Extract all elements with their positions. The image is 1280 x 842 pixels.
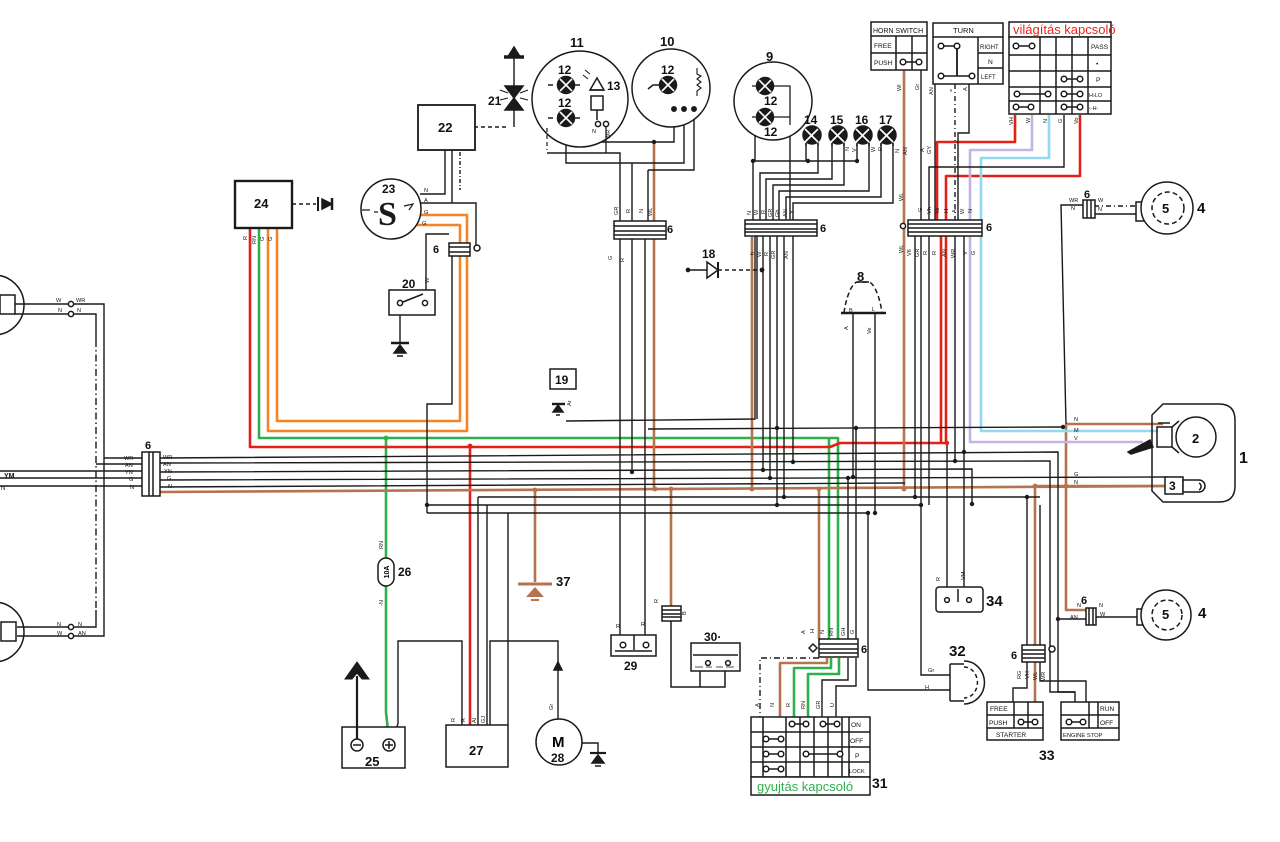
- wire box 34 VM feed: [963, 452, 965, 588]
- svg-text:5: 5: [1162, 201, 1169, 216]
- wire connector a to box 29 left: [619, 239, 621, 635]
- svg-text:18: 18: [702, 247, 716, 261]
- svg-text:WL: WL: [899, 193, 905, 201]
- svg-text:N: N: [130, 485, 134, 491]
- wire connector b down b6: [792, 236, 794, 462]
- wire green ignition feed R: [794, 658, 831, 718]
- svg-text:6: 6: [1011, 650, 1017, 662]
- svg-text:R: R: [923, 251, 929, 255]
- wire motor to ground: [581, 743, 598, 753]
- connector 6 speedometer (a): [614, 221, 666, 239]
- svg-text:PUSH: PUSH: [874, 60, 893, 67]
- connector 6 top right (h): [1083, 200, 1095, 218]
- wire brown tail lamp feed: [1066, 424, 1163, 610]
- connector 6 right cluster (c): [900, 220, 982, 236]
- wire bulb 15 W: [766, 143, 832, 220]
- battery 25: [342, 727, 405, 768]
- wire brown bus junction down to connector 29-30: [670, 490, 673, 606]
- connector 6 ignition (f): [819, 639, 858, 657]
- svg-text:6: 6: [1081, 595, 1087, 607]
- svg-text:11: 11: [570, 35, 584, 50]
- wire lighting switch W: [929, 115, 1064, 222]
- svg-text:12: 12: [558, 63, 572, 77]
- svg-text:32: 32: [949, 643, 966, 660]
- svg-text:R: R: [936, 577, 942, 581]
- svg-text:N: N: [1077, 603, 1081, 609]
- svg-text:RN: RN: [801, 701, 807, 709]
- motor ground: [590, 753, 606, 766]
- svg-text:G: G: [1058, 119, 1064, 123]
- wire connector b down b2: [762, 236, 764, 470]
- svg-text:R: R: [641, 622, 645, 628]
- svg-text:V6: V6: [907, 249, 913, 256]
- svg-text:19: 19: [555, 373, 569, 387]
- svg-text:Vh: Vh: [927, 207, 933, 214]
- svg-text:R: R: [761, 210, 767, 214]
- wire turn signal 5 bottom leads: [1096, 616, 1137, 618]
- svg-text:30·: 30·: [704, 630, 721, 644]
- box 29-30 lower wiring: [671, 621, 725, 687]
- alternator circle 23: [361, 179, 421, 239]
- svg-text:17: 17: [879, 113, 893, 127]
- svg-text:8: 8: [857, 269, 864, 284]
- wire brown speedometer WL down to bus: [653, 143, 656, 488]
- small wire labels: [1, 84, 1106, 723]
- motor 28: [536, 719, 582, 765]
- svg-text:AN: AN: [1070, 615, 1078, 621]
- svg-text:W: W: [871, 146, 877, 152]
- connector 29-30 brown hatched: [662, 606, 681, 621]
- diode 21 symbol: [500, 47, 528, 110]
- svg-text:H›LO: H›LO: [1089, 93, 1103, 99]
- wire brown below connector b to bus: [751, 237, 754, 489]
- svg-text:A: A: [801, 630, 807, 634]
- svg-text:22: 22: [438, 120, 452, 135]
- svg-text:R: R: [620, 258, 626, 262]
- svg-text:R: R: [932, 251, 938, 255]
- svg-text:VH: VH: [1025, 671, 1031, 679]
- wire red below connector to bus: [937, 230, 941, 443]
- tachometer gauge 10: [632, 49, 710, 127]
- svg-text:A: A: [755, 703, 761, 707]
- horn switch box: [871, 22, 927, 70]
- wire turn signal 5 top lead solid: [1094, 213, 1136, 215]
- svg-text:21: 21: [488, 94, 502, 108]
- wire diode 18 anode lead: [688, 269, 707, 271]
- wire brown main bus: [160, 486, 1168, 492]
- svg-text:G: G: [129, 477, 133, 483]
- svg-text:VM: VM: [961, 571, 967, 580]
- wire red bus to CDI box 27: [469, 447, 472, 725]
- LED 13: [583, 70, 604, 120]
- svg-text:29: 29: [624, 659, 638, 673]
- svg-text:13: 13: [607, 79, 621, 93]
- wire horn 32 H feed: [868, 513, 950, 690]
- svg-text:23: 23: [382, 182, 396, 196]
- wire orange outer (regulator 24 to alternator connector): [277, 225, 460, 421]
- svg-text:2: 2: [1192, 431, 1199, 446]
- svg-text:N: N: [1074, 417, 1078, 423]
- wire turn switch A: [958, 84, 969, 222]
- connector W lower circle: [68, 633, 73, 638]
- wire connector a down to YN bus: [631, 239, 633, 472]
- svg-text:G: G: [1074, 472, 1078, 478]
- svg-text:N: N: [895, 149, 901, 153]
- svg-text:G: G: [167, 476, 171, 482]
- wire front turn signal N dash-dot section: [95, 340, 97, 610]
- box 19: [550, 369, 576, 389]
- svg-text:N: N: [424, 188, 428, 194]
- wire bulb 14 V: [760, 143, 818, 220]
- svg-text:W: W: [960, 208, 966, 214]
- wire speedometer harness a5: [631, 163, 633, 222]
- svg-text:PASS: PASS: [1091, 44, 1109, 51]
- svg-text:N: N: [592, 129, 596, 135]
- wire ignition connector GH feed: [847, 478, 849, 639]
- svg-text:YM: YM: [4, 473, 15, 480]
- svg-text:YN: YN: [125, 470, 133, 476]
- wire connector b down b1: [756, 236, 758, 419]
- svg-text:R: R: [616, 624, 620, 630]
- wire tachometer bulb collector: [753, 90, 857, 220]
- svg-text:WR: WR: [76, 298, 85, 304]
- svg-text:N: N: [1099, 603, 1103, 609]
- svg-text:G: G: [424, 210, 428, 216]
- rectifier box 29: [611, 635, 656, 656]
- svg-text:N: N: [58, 308, 62, 314]
- wire bulb 17 GY: [793, 143, 893, 220]
- wire bulb 17 A: [786, 143, 881, 220]
- svg-text:G: G: [850, 630, 856, 634]
- wire box 34 R feed: [946, 444, 948, 588]
- wire brown bus to tail bulb 3: [1035, 485, 1168, 488]
- svg-text:N: N: [1043, 119, 1049, 123]
- svg-text:A: A: [920, 148, 926, 152]
- svg-text:5: 5: [1162, 607, 1169, 622]
- svg-text:14: 14: [804, 113, 818, 127]
- fuse 26: [378, 558, 394, 586]
- wire ignition A dash-dot: [760, 658, 819, 718]
- bulb 15: [829, 126, 847, 146]
- svg-text:A: A: [963, 87, 969, 91]
- svg-text:28: 28: [551, 751, 565, 765]
- svg-text:WR: WR: [1041, 672, 1047, 681]
- svg-text:Gr: Gr: [928, 668, 934, 674]
- connector g pin circle: [1049, 646, 1055, 652]
- svg-text:PUSH: PUSH: [989, 720, 1008, 727]
- wire ignition U lead: [836, 658, 856, 718]
- bulb 12 gauge9 lower: [752, 109, 790, 126]
- tail bulb 3: [1165, 477, 1205, 494]
- svg-text:R: R: [461, 718, 467, 722]
- svg-text:világítás kapcsoló: világítás kapcsoló: [1013, 22, 1116, 37]
- svg-text:W: W: [757, 251, 763, 257]
- svg-text:37: 37: [556, 574, 570, 589]
- wire red main bus (regulator 24 across): [250, 115, 1080, 447]
- component number labels: [145, 34, 1248, 791]
- CDI box 27: [446, 725, 508, 767]
- svg-text:AN: AN: [784, 251, 790, 259]
- wire front turn signal W upper: [14, 304, 104, 636]
- wire turn switch center dashed: [954, 84, 956, 222]
- svg-text:H: H: [810, 629, 816, 633]
- wire red lighting switch RH to connector: [937, 115, 1015, 222]
- wire box 22 N to alternator: [420, 150, 445, 194]
- svg-text:ENGINE STOP: ENGINE STOP: [1063, 733, 1103, 739]
- svg-text:R: R: [654, 599, 660, 603]
- svg-text:RN: RN: [379, 541, 385, 549]
- front turn signal left bottom: [0, 602, 24, 662]
- connector N upper circle: [68, 311, 73, 316]
- svg-text:Wl: Wl: [897, 84, 903, 91]
- svg-text:25: 25: [365, 754, 379, 769]
- wire brown ignition connector to switch N: [780, 658, 827, 718]
- wire speedometer harness a3: [566, 110, 684, 163]
- svg-text:LEFT: LEFT: [981, 75, 996, 81]
- lighting switch box: [1009, 22, 1111, 114]
- wire CDI fourth feed: [507, 513, 509, 725]
- wire turn switch AN: [934, 84, 936, 222]
- wire green fuse 26 to battery plus: [386, 585, 389, 741]
- wire connector b down b5: [783, 236, 785, 497]
- bulb 12 speedo upper: [548, 77, 580, 94]
- speedometer gauge 11: [532, 51, 628, 150]
- svg-text:gyujtás kapcsoló: gyujtás kapcsoló: [757, 779, 853, 794]
- wire green ignition feed RN: [808, 658, 839, 718]
- wire starter connector feed 1: [1026, 497, 1028, 645]
- svg-text:GR: GR: [816, 701, 822, 709]
- wire speedometer harness a1: [598, 110, 674, 142]
- svg-text:6: 6: [145, 440, 151, 452]
- connector 6 bottom right (i): [1086, 608, 1096, 625]
- svg-text:31: 31: [872, 775, 888, 791]
- svg-text:N: N: [77, 308, 81, 314]
- svg-text:R: R: [451, 718, 457, 722]
- svg-text:AN: AN: [163, 462, 171, 468]
- wire lavender lighting switch N to tail lamp 2: [970, 115, 1143, 442]
- horn 32: [950, 661, 984, 704]
- wire L3 accessory line: [427, 512, 868, 514]
- wire starter WR to engine stop: [1040, 662, 1086, 702]
- wire ignition GR lead: [822, 658, 848, 718]
- svg-text:W: W: [57, 631, 63, 637]
- svg-text:33: 33: [1039, 747, 1055, 763]
- svg-text:N: N: [1, 486, 5, 492]
- svg-text:G: G: [268, 237, 274, 241]
- svg-text:3: 3: [1169, 479, 1176, 493]
- svg-text:N: N: [747, 211, 753, 215]
- svg-text:N: N: [1071, 206, 1075, 212]
- starter switch box: [987, 702, 1043, 740]
- svg-text:P: P: [1096, 77, 1101, 84]
- svg-text:12: 12: [764, 125, 778, 139]
- svg-text:W: W: [1100, 612, 1106, 618]
- svg-text:R: R: [878, 147, 884, 151]
- svg-text:Ar: Ar: [567, 400, 573, 406]
- svg-text:h: h: [750, 252, 756, 255]
- lavender wire arrow tag: [1128, 440, 1153, 454]
- svg-text:M: M: [1074, 428, 1079, 434]
- svg-text:Ve: Ve: [867, 327, 873, 334]
- wire green main bus (regulator 24 to ignition switch): [259, 228, 838, 640]
- connector 6 main left: [142, 452, 160, 496]
- svg-text:27: 27: [469, 743, 483, 758]
- svg-text:HORN SWITCH: HORN SWITCH: [873, 28, 923, 35]
- battery ground arrow bold: [345, 662, 369, 739]
- turn switch box: [933, 23, 1003, 84]
- svg-text:G: G: [422, 221, 426, 227]
- svg-text:N: N: [820, 630, 826, 634]
- svg-text:G: G: [608, 256, 614, 260]
- connector f diamond pin: [809, 644, 817, 652]
- svg-text:Y: Y: [790, 210, 796, 214]
- svg-text:4: 4: [1197, 200, 1206, 217]
- svg-text:V: V: [1074, 436, 1078, 442]
- tacho terminal dots: [672, 107, 696, 111]
- svg-text:AN: AN: [929, 87, 935, 95]
- wire CDI AL feed: [477, 497, 479, 725]
- bulb 12 speedo lower: [548, 110, 580, 127]
- flasher box 30: [691, 643, 740, 671]
- svg-text:G: G: [260, 237, 266, 241]
- svg-text:WR: WR: [163, 455, 172, 461]
- svg-text:OFF: OFF: [850, 738, 863, 745]
- svg-text:6: 6: [820, 223, 826, 235]
- engine stop switch box: [1061, 702, 1119, 740]
- svg-text:20: 20: [402, 277, 416, 291]
- svg-text:R: R: [243, 236, 249, 240]
- wire battery plus loop: [391, 641, 462, 739]
- svg-text:V: V: [963, 251, 969, 255]
- wire L2 accessory line: [427, 504, 921, 506]
- tacho internal resistor: [697, 68, 701, 96]
- svg-text:R: R: [786, 703, 792, 707]
- svg-text:N: N: [968, 209, 974, 213]
- front turn signal left top: [0, 275, 24, 335]
- svg-text:WL: WL: [1033, 672, 1039, 680]
- speedo terminal circles: [595, 121, 608, 153]
- svg-text:N: N: [770, 703, 776, 707]
- wire switch 20 W to connector d: [426, 234, 449, 300]
- wire orange inner (regulator 24 to alternator connector): [268, 215, 467, 431]
- svg-text:WR: WR: [124, 456, 133, 462]
- svg-text:12: 12: [764, 94, 778, 108]
- wire bulb 15 R: [773, 143, 844, 220]
- bulb 17: [878, 126, 896, 146]
- svg-text:AN: AN: [783, 209, 789, 217]
- wire switch 20 to ground: [399, 306, 401, 342]
- wire ignition connector G feed: [855, 428, 857, 639]
- svg-text:N: N: [168, 484, 172, 490]
- wire U1 line from box 19: [566, 236, 755, 421]
- svg-text:U: U: [830, 703, 836, 707]
- wire box 22 dashed lead: [459, 152, 461, 190]
- svg-text:OFF: OFF: [1100, 720, 1113, 727]
- wire brown horn switch WL down: [903, 70, 906, 489]
- diode 18: [686, 262, 718, 278]
- motor loop arrowhead: [554, 662, 562, 670]
- svg-text:15: 15: [830, 113, 844, 127]
- svg-text:WR: WR: [951, 249, 957, 258]
- wire AN bus: [96, 461, 1075, 692]
- wire connector c down c4: [963, 236, 965, 452]
- svg-text:RIGHT: RIGHT: [980, 45, 999, 51]
- bulb 16: [854, 126, 872, 146]
- box 24 connector stub: [292, 197, 332, 211]
- wire brown bus to ground 37: [534, 491, 537, 582]
- svg-text:GR: GR: [614, 207, 620, 215]
- wire WR bus: [104, 452, 1086, 702]
- wire connector c down c3: [954, 236, 956, 461]
- wire front turn signal N upper: [14, 314, 96, 627]
- svg-text:H: H: [925, 685, 929, 691]
- svg-text:26: 26: [398, 565, 412, 579]
- svg-text:L: L: [872, 307, 875, 313]
- wire L1 accessory line: [478, 496, 1040, 498]
- svg-text:TURN: TURN: [953, 26, 974, 35]
- svg-text:S: S: [378, 196, 397, 233]
- svg-text:W: W: [56, 298, 62, 304]
- svg-text:GR: GR: [915, 249, 921, 257]
- svg-text:W: W: [754, 209, 760, 215]
- svg-text:GH: GH: [841, 628, 847, 636]
- wire diode 21 vertical: [513, 56, 515, 127]
- svg-text:STARTER: STARTER: [996, 732, 1026, 739]
- wire speedometer harness a4: [648, 110, 694, 222]
- connector d pin circle: [474, 245, 480, 251]
- wire horn 8 terminal B: [852, 314, 854, 477]
- wire alternator A line: [421, 150, 476, 245]
- wire connector b down b4: [776, 236, 778, 505]
- wire connector c down c1: [914, 236, 916, 497]
- svg-text:6: 6: [1084, 189, 1090, 201]
- ground 37 brown: [518, 584, 552, 600]
- wire connector c down c2: [928, 236, 930, 505]
- svg-text:9: 9: [766, 49, 773, 64]
- svg-text:Ve: Ve: [935, 207, 941, 214]
- svg-text:N: N: [78, 622, 82, 628]
- svg-text:RUN: RUN: [1100, 706, 1115, 713]
- svg-text:-N: -N: [379, 600, 385, 606]
- svg-text:WL: WL: [899, 245, 905, 253]
- svg-text:Gr: Gr: [915, 84, 921, 90]
- svg-text:6: 6: [986, 222, 992, 234]
- wire speedometer harness a2: [547, 153, 620, 222]
- svg-text:10A: 10A: [384, 566, 391, 579]
- svg-text:B: B: [682, 611, 688, 615]
- horn 8 bell: [841, 282, 886, 313]
- svg-text:B: B: [849, 308, 853, 314]
- connector W upper circle: [68, 301, 73, 306]
- svg-text:GR: GR: [768, 209, 774, 217]
- switch box texts: [849, 26, 1115, 775]
- svg-text:R: R: [764, 252, 770, 256]
- wire tachometer GR: [789, 125, 791, 220]
- wire green branch to ignition connector: [828, 438, 831, 640]
- turn signal 5 bottom: [1137, 590, 1191, 640]
- svg-text:LOCK: LOCK: [849, 769, 865, 775]
- svg-text:GR: GR: [771, 251, 777, 259]
- CDI unit box 22: [418, 105, 475, 150]
- svg-text:WR: WR: [1069, 198, 1078, 204]
- svg-text:12: 12: [661, 63, 675, 77]
- svg-text:6: 6: [667, 224, 673, 236]
- svg-text:A: A: [424, 198, 428, 204]
- svg-text:WR: WR: [606, 130, 612, 139]
- wire U2 line: [648, 427, 1063, 429]
- svg-text:N: N: [1074, 480, 1078, 486]
- svg-text:GY: GY: [927, 146, 933, 154]
